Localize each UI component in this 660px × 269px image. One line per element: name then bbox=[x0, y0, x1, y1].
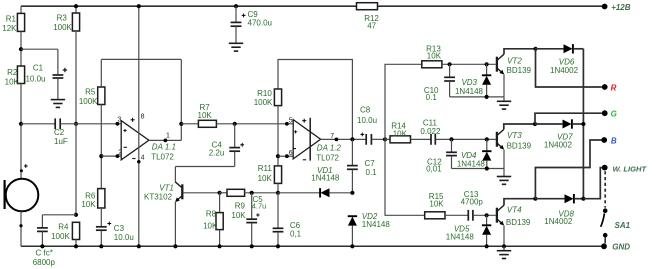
wire C2 to pin3 bbox=[60, 123, 121, 125]
resistor R13 bbox=[422, 61, 442, 68]
wire C11 to VT3 base bbox=[436, 138, 496, 140]
junction R11-C6 bbox=[276, 191, 280, 195]
svg-text:DA 1.2: DA 1.2 bbox=[317, 143, 342, 152]
capacitor C4 bbox=[234, 124, 236, 147]
svg-text:VT2: VT2 bbox=[507, 57, 522, 66]
svg-text:2.2u: 2.2u bbox=[209, 149, 225, 158]
wire white light bus bbox=[582, 49, 584, 199]
wire R7 to pin5 bbox=[216, 123, 293, 125]
transistor VT4 BD139 bbox=[496, 208, 498, 223]
svg-text:C2: C2 bbox=[54, 128, 65, 137]
svg-text:R: R bbox=[611, 84, 617, 93]
capacitor C1 bbox=[21, 48, 58, 50]
wire VT1 emitter to rail bbox=[174, 202, 176, 246]
svg-text:R9: R9 bbox=[235, 202, 246, 211]
wire VT4 emitter to rail bbox=[503, 226, 505, 247]
svg-text:4.7u: 4.7u bbox=[252, 202, 267, 211]
svg-text:1N4002: 1N4002 bbox=[550, 66, 579, 75]
svg-text:10.0u: 10.0u bbox=[114, 233, 134, 242]
junction C4 tee bbox=[233, 122, 237, 126]
svg-text:1N4002: 1N4002 bbox=[544, 140, 573, 149]
capacitor C8 bbox=[365, 134, 367, 145]
capacitor C fc* bbox=[41, 215, 43, 228]
wire DA1.1 output bbox=[149, 139, 181, 141]
svg-text:10K: 10K bbox=[81, 200, 96, 209]
svg-text:R4: R4 bbox=[58, 222, 69, 231]
wire R3 to input node bbox=[75, 31, 77, 124]
svg-text:VT3: VT3 bbox=[507, 131, 522, 140]
junction VD3 tee bbox=[485, 62, 489, 66]
junction R7 tee bbox=[179, 122, 183, 126]
pin 6 dot bbox=[285, 154, 289, 158]
wire R10 to R11 bbox=[277, 106, 279, 166]
diode VD6 1N4002 bbox=[536, 48, 564, 50]
resistor R14 bbox=[385, 138, 390, 140]
pin 5 dot bbox=[285, 122, 289, 126]
wire C3 to rail bbox=[100, 231, 102, 247]
wire R5 to pin2 node bbox=[100, 105, 102, 189]
svg-text:10.0u: 10.0u bbox=[25, 74, 45, 83]
switch SA1 bbox=[604, 171, 606, 207]
resistor R3 bbox=[75, 6, 77, 13]
junction VD5 tee bbox=[485, 213, 489, 217]
svg-text:1N4148: 1N4148 bbox=[446, 233, 475, 242]
wire VD7 to bus bbox=[572, 123, 583, 125]
junction pin6 node bbox=[276, 154, 280, 158]
op-amp DA1.1 TL072 bbox=[121, 121, 149, 160]
junction R3 bias bbox=[74, 122, 78, 126]
wire pin6 bbox=[278, 155, 293, 157]
svg-text:1N4002: 1N4002 bbox=[544, 217, 573, 226]
diode VD4 1N4148 bbox=[486, 139, 488, 150]
svg-text:4: 4 bbox=[141, 155, 145, 162]
junction VD4 tee bbox=[485, 137, 489, 141]
wire VT3 collector bbox=[504, 124, 535, 129]
svg-text:7: 7 bbox=[330, 133, 334, 140]
svg-text:12K: 12K bbox=[2, 24, 17, 33]
svg-text:10K: 10K bbox=[393, 130, 408, 139]
svg-text:0,1: 0,1 bbox=[290, 230, 302, 239]
svg-text:100K: 100K bbox=[79, 97, 98, 106]
svg-text:R10: R10 bbox=[257, 89, 272, 98]
resistor R9 bbox=[220, 192, 227, 194]
ground VT3 bbox=[503, 169, 505, 177]
svg-text:B: B bbox=[611, 136, 617, 145]
svg-text:C fc*: C fc* bbox=[36, 249, 53, 258]
svg-text:10.0u: 10.0u bbox=[357, 116, 377, 125]
junction filter node bbox=[383, 137, 387, 141]
wire mic to ground rail bbox=[20, 211, 22, 246]
svg-text:TL072: TL072 bbox=[151, 152, 174, 161]
wire VT4 collector bbox=[504, 199, 535, 206]
svg-text:6800p: 6800p bbox=[33, 258, 56, 267]
svg-text:47: 47 bbox=[367, 21, 376, 30]
capacitor C12 bbox=[451, 139, 453, 151]
resistor R8 bbox=[219, 193, 221, 213]
wire bus to W LIGHT terminal bbox=[583, 168, 601, 199]
svg-text:1N4148: 1N4148 bbox=[457, 159, 486, 168]
capacitor C2 bbox=[21, 123, 55, 125]
junction output-C7-feedback bbox=[350, 137, 354, 141]
svg-text:R11: R11 bbox=[258, 164, 273, 173]
wire R11 to detector row bbox=[277, 183, 279, 192]
svg-text:VT1: VT1 bbox=[159, 184, 174, 193]
svg-text:VT4: VT4 bbox=[507, 206, 522, 215]
svg-text:R2: R2 bbox=[7, 68, 18, 77]
svg-text:1N4148: 1N4148 bbox=[311, 173, 340, 182]
wire VT2 emitter ground row bbox=[450, 96, 504, 98]
wire VD6 to bus bbox=[573, 48, 583, 50]
op-amp DA1.2 TL072 bbox=[293, 120, 320, 159]
svg-text:100K: 100K bbox=[254, 98, 273, 107]
capacitor C6 bbox=[277, 193, 279, 228]
svg-text:0,01: 0,01 bbox=[426, 165, 442, 174]
wire C4 to VT1 collector bbox=[234, 152, 236, 167]
microphone bbox=[6, 179, 39, 212]
svg-text:0.1: 0.1 bbox=[366, 168, 378, 177]
wire R channel to terminal bbox=[536, 49, 602, 87]
resistor R1 bbox=[17, 13, 24, 31]
node W LIGHT terminal bbox=[602, 165, 608, 171]
svg-text:100K: 100K bbox=[51, 232, 70, 241]
node G terminal bbox=[602, 110, 608, 116]
diode VD2 1N4148 bbox=[348, 215, 357, 217]
svg-text:DA 1.1: DA 1.1 bbox=[152, 143, 176, 152]
junction VD7 bus bbox=[581, 122, 585, 126]
wire VT3 emitter ground row bbox=[452, 168, 505, 170]
svg-text:6: 6 bbox=[289, 150, 293, 157]
ground under C1 bbox=[57, 79, 59, 100]
svg-text:4700p: 4700p bbox=[461, 198, 484, 207]
wire R1 to R2 bbox=[20, 31, 22, 66]
wire op-amp power column pins 8-4 bbox=[138, 6, 140, 246]
wire VD2 to rail bbox=[351, 226, 353, 247]
svg-text:1uF: 1uF bbox=[54, 137, 68, 146]
resistor R6 bbox=[98, 189, 105, 208]
pin 1 dot bbox=[164, 139, 168, 143]
svg-text:R5: R5 bbox=[85, 88, 96, 97]
diode VD3 1N4148 bbox=[486, 64, 488, 75]
diode VD1 1N4148 bbox=[319, 188, 321, 197]
capacitor C10 bbox=[449, 64, 451, 76]
ground VT4 bbox=[503, 246, 505, 250]
svg-text:GND: GND bbox=[612, 243, 630, 252]
svg-text:C8: C8 bbox=[360, 106, 371, 115]
junction R8 tee bbox=[218, 191, 222, 195]
wire VD1 to node bbox=[330, 192, 353, 194]
wire Cfc to rail bbox=[41, 232, 43, 247]
svg-text:1N4148: 1N4148 bbox=[362, 220, 391, 229]
wire pin2 bbox=[101, 155, 121, 157]
junction C5 tee bbox=[250, 191, 254, 195]
wire filter splitter column bbox=[385, 64, 425, 215]
resistor R4 bbox=[72, 222, 79, 239]
junction R2-C2 bbox=[19, 122, 23, 126]
svg-text:100K: 100K bbox=[53, 23, 72, 32]
wire B channel to terminal bbox=[535, 140, 601, 199]
svg-text:5: 5 bbox=[289, 117, 293, 124]
transistor VT1 KT3102 bbox=[181, 184, 183, 199]
svg-text:10K: 10K bbox=[198, 111, 213, 120]
capacitor C7 bbox=[351, 139, 353, 165]
junction R4-Cfc bbox=[74, 213, 78, 217]
svg-text:+12B: +12B bbox=[611, 3, 631, 12]
svg-text:1N4148: 1N4148 bbox=[455, 87, 484, 96]
svg-text:8: 8 bbox=[141, 113, 145, 120]
junction B channel node bbox=[533, 197, 537, 201]
resistor R5 bbox=[100, 59, 102, 87]
ground VT2 bbox=[503, 97, 505, 101]
svg-text:10K: 10K bbox=[5, 78, 20, 87]
wire R4 node to Cfc bbox=[42, 214, 76, 216]
svg-text:W. LIGHT: W. LIGHT bbox=[613, 164, 648, 173]
wire DA1.2 output bbox=[321, 138, 366, 140]
resistor R10 bbox=[274, 89, 281, 106]
svg-text:0.022: 0.022 bbox=[420, 127, 441, 136]
ground under C9 bbox=[235, 27, 237, 44]
pin 2 dot bbox=[116, 154, 120, 158]
wire G channel to terminal bbox=[535, 113, 602, 124]
junction R channel node bbox=[533, 47, 537, 51]
wire VT2 emitter bbox=[503, 75, 505, 97]
wire VT2 collector bbox=[504, 49, 536, 54]
svg-text:VD3: VD3 bbox=[461, 78, 477, 87]
node +12B terminal bbox=[602, 4, 608, 10]
resistor R15 bbox=[425, 212, 445, 219]
wire VT1 collector bbox=[174, 167, 176, 182]
resistor R7 bbox=[181, 123, 198, 125]
wire DA1.1 feedback top bbox=[101, 58, 181, 60]
capacitor C5 bbox=[251, 193, 253, 219]
wire detector row bbox=[278, 192, 320, 194]
capacitor C9 bbox=[234, 4, 238, 8]
junction G channel node bbox=[533, 122, 537, 126]
svg-text:C3: C3 bbox=[114, 224, 125, 233]
wire VT3 emitter bbox=[503, 150, 505, 169]
wire VD8 to bus bbox=[574, 198, 583, 200]
svg-text:C7: C7 bbox=[365, 159, 376, 168]
svg-text:1: 1 bbox=[166, 133, 170, 140]
node GND terminal bbox=[601, 243, 607, 249]
svg-text:R3: R3 bbox=[57, 13, 68, 22]
wire +12V top rail bbox=[21, 5, 357, 7]
junction detector node bbox=[350, 191, 354, 195]
diode VD5 1N4148 bbox=[486, 215, 488, 225]
svg-text:BD139: BD139 bbox=[506, 218, 531, 227]
transistor VT2 BD139 bbox=[496, 57, 498, 72]
transistor VT3 BD139 bbox=[496, 132, 498, 147]
svg-text:10K: 10K bbox=[203, 221, 218, 230]
capacitor C11 bbox=[411, 138, 431, 140]
pin 7 dot bbox=[335, 137, 339, 141]
resistor R12 bbox=[357, 3, 378, 10]
wire VT1 base row bbox=[184, 192, 220, 194]
svg-text:R8: R8 bbox=[206, 210, 217, 219]
resistor R11 bbox=[274, 166, 281, 184]
wire R2 to mic bbox=[20, 84, 22, 179]
wire DA1.2 feedback top bbox=[278, 60, 352, 140]
node R terminal bbox=[602, 84, 608, 90]
junction pin2 node bbox=[99, 154, 103, 158]
capacitor C13 bbox=[467, 210, 469, 221]
svg-text:SA1: SA1 bbox=[615, 221, 631, 230]
svg-text:C1: C1 bbox=[33, 63, 44, 72]
wire output to feedback column bbox=[180, 59, 182, 140]
svg-text:TL072: TL072 bbox=[316, 154, 339, 163]
svg-text:470.0u: 470.0u bbox=[248, 19, 272, 28]
junction C12 tee bbox=[449, 137, 453, 141]
diode VD7 1N4002 bbox=[535, 123, 562, 125]
svg-text:0.1: 0.1 bbox=[426, 93, 438, 102]
svg-text:BD139: BD139 bbox=[507, 141, 532, 150]
svg-text:10K: 10K bbox=[231, 211, 246, 220]
capacitor C3 bbox=[100, 208, 102, 226]
wire C13 to VT4 base bbox=[473, 214, 496, 216]
junction C10 tee bbox=[448, 62, 452, 66]
svg-text:10K: 10K bbox=[429, 200, 444, 209]
wire R15 to C13 bbox=[445, 214, 468, 216]
svg-text:3: 3 bbox=[117, 116, 121, 123]
wire C8 to filter node bbox=[372, 138, 385, 140]
node B terminal bbox=[601, 137, 607, 143]
junction R1-R2-C1 bbox=[19, 47, 23, 51]
svg-text:G: G bbox=[611, 110, 617, 119]
svg-text:R1: R1 bbox=[6, 15, 17, 24]
svg-text:10K: 10K bbox=[427, 51, 442, 60]
svg-text:BD139: BD139 bbox=[507, 66, 532, 75]
svg-text:10K: 10K bbox=[258, 174, 273, 183]
wire R3-R4 divider column bbox=[75, 124, 77, 215]
junction VD8 bus bbox=[581, 197, 585, 201]
wire R13 to VT2 base bbox=[442, 63, 496, 65]
pin 3 dot bbox=[116, 122, 120, 126]
diode VD8 1N4002 bbox=[535, 198, 564, 200]
resistor R2 bbox=[17, 66, 24, 84]
wire ground bottom rail bbox=[21, 245, 602, 247]
svg-text:KT3102: KT3102 bbox=[144, 192, 173, 201]
